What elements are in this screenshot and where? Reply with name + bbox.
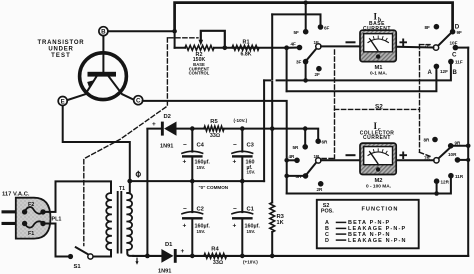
wire top rail (base net B to 5F and 9F)	[175, 3, 453, 32]
M2 plus sign	[400, 152, 406, 158]
svg-text:S2: S2	[375, 104, 383, 111]
svg-text:0-1 MA.: 0-1 MA.	[370, 70, 387, 76]
svg-text:15V.: 15V.	[197, 165, 206, 170]
node R3 bottom	[270, 254, 275, 259]
diode D2 1N91	[146, 129, 148, 256]
svg-text:+: +	[183, 223, 187, 230]
wire 5F feed from top rail	[305, 3, 307, 32]
wire B (to 12F)	[287, 66, 437, 91]
svg-text:33Ω: 33Ω	[210, 133, 220, 139]
transformer T1 core	[118, 192, 122, 253]
meter M1	[360, 30, 396, 61]
contact 2F (spare)	[316, 66, 322, 72]
wire primary bottom to S1	[93, 250, 111, 257]
svg-text:D1: D1	[165, 242, 173, 248]
svg-text:"0" COMMON: "0" COMMON	[199, 185, 229, 190]
switch S2 wiper 1F-3F	[307, 49, 316, 60]
switch S2 wiper 7R-9R	[438, 148, 450, 159]
svg-text:CONTROL: CONTROL	[189, 71, 210, 76]
contact 2R (spare)	[318, 181, 324, 187]
wire secondary bottom to rail	[127, 250, 133, 256]
node 3R stub	[284, 174, 289, 179]
svg-text:B: B	[453, 70, 458, 76]
contact 4F	[297, 45, 303, 51]
svg-text:LEAKAGE N-P-N: LEAKAGE N-P-N	[348, 238, 407, 244]
svg-text:I: I	[374, 12, 378, 22]
svg-text:6.8K: 6.8K	[241, 52, 252, 58]
transistor emitter lead with arrow	[67, 77, 96, 101]
node top-rail junction for 5F	[304, 0, 308, 4]
contact 3F and its drop	[305, 62, 307, 81]
svg-text:12F: 12F	[440, 69, 448, 74]
terminal E	[58, 97, 67, 106]
svg-text:UNDER: UNDER	[48, 47, 73, 53]
node R1 junction	[284, 45, 289, 50]
diode D1 1N91	[161, 249, 173, 263]
wire 1R to M2 minus	[321, 159, 360, 161]
plug PL1 body	[16, 198, 51, 239]
capacitor C4 160uf	[191, 129, 193, 152]
svg-text:POS.: POS.	[321, 209, 334, 215]
M1 plus sign	[400, 40, 406, 46]
svg-text:D: D	[455, 24, 460, 31]
wire A (emitter net: 3F,11F, down to common rail)	[264, 62, 451, 81]
svg-text:2R: 2R	[317, 187, 324, 192]
svg-text:10F: 10F	[450, 40, 458, 45]
wire stub to 4F	[287, 47, 299, 49]
svg-text:F1: F1	[28, 231, 34, 237]
fuse F1	[25, 221, 43, 227]
winding polarity mark	[136, 172, 140, 176]
svg-text:9F: 9F	[457, 30, 463, 35]
switch S2 wiper 1R-3R	[307, 163, 316, 174]
contact 12R with drop to wire A2	[436, 181, 438, 193]
node C4 top	[190, 126, 195, 131]
wire E down and over to transformer/common	[63, 106, 130, 182]
wire 6F branch from collector column	[272, 14, 320, 27]
function table box	[317, 200, 419, 249]
svg-text:11F: 11F	[455, 60, 463, 65]
svg-text:R4: R4	[211, 246, 219, 252]
dashed R2-S1 gang linkage	[84, 38, 198, 246]
svg-text:6F: 6F	[324, 25, 330, 30]
switch S2 wiper 7F-9F	[438, 34, 450, 46]
resistor R2 150K potentiometer	[185, 45, 214, 50]
contact 5R	[302, 144, 308, 150]
svg-text:10R: 10R	[448, 152, 457, 157]
plug prong upper	[2, 210, 17, 213]
svg-text:+: +	[233, 159, 237, 166]
wire plug upper contact out	[43, 211, 56, 213]
switch S1	[68, 254, 73, 259]
svg-text:F2: F2	[28, 202, 34, 208]
svg-text:C4: C4	[197, 142, 205, 148]
contact 11F	[448, 59, 454, 65]
capacitor C3 160uf	[241, 129, 243, 152]
node 4R stub	[284, 158, 289, 163]
wire primary top to plug upper contact	[56, 181, 112, 210]
svg-text:8R: 8R	[424, 138, 431, 143]
contact 1F (wiper pole)	[316, 44, 321, 49]
svg-text:−: −	[183, 142, 187, 149]
wire A2 bottom of lower section to 11R/12R	[287, 176, 451, 194]
plug prong lower	[2, 222, 17, 225]
svg-text:0 - 100 MA.: 0 - 100 MA.	[366, 183, 391, 189]
svg-text:8F: 8F	[425, 25, 431, 30]
svg-text:+: +	[152, 121, 156, 128]
svg-text:15V.: 15V.	[247, 229, 256, 234]
svg-text:1N91: 1N91	[160, 144, 173, 150]
transistor Q under test : lead B	[102, 36, 104, 72]
svg-text:2F: 2F	[315, 72, 321, 77]
contact 9F position D	[450, 29, 456, 35]
node C3/C1 column on common	[240, 179, 245, 184]
svg-text:11R: 11R	[455, 174, 464, 179]
svg-text:−: −	[233, 206, 237, 213]
svg-text:−: −	[183, 206, 187, 213]
svg-text:C: C	[136, 98, 141, 105]
contact 6R	[315, 138, 321, 144]
svg-text:E: E	[61, 98, 65, 105]
svg-text:5R: 5R	[293, 145, 300, 150]
svg-text:R1: R1	[243, 40, 250, 46]
fuse F2	[25, 207, 43, 214]
svg-text:3F: 3F	[296, 60, 302, 65]
svg-text:TEST: TEST	[51, 53, 71, 59]
wire M2 plus to 7R	[396, 159, 434, 161]
contact 9R position D with wire to right vertical	[451, 145, 469, 147]
wire V1 collector feed 6F down to -10V rail	[271, 14, 273, 128]
svg-text:12R: 12R	[441, 180, 450, 185]
contact 7F (wiper pole)	[433, 45, 438, 50]
svg-text:15V.: 15V.	[197, 229, 206, 234]
svg-text:1N91: 1N91	[158, 268, 171, 274]
svg-text:(+10V.): (+10V.)	[243, 259, 258, 264]
wire LV2 collector column down	[286, 129, 288, 194]
wire M1 plus to 7F	[396, 46, 433, 49]
svg-text:TRANSISTOR: TRANSISTOR	[38, 40, 85, 46]
svg-text:B: B	[101, 29, 106, 36]
wire junction down to R2 row	[174, 31, 176, 48]
wire LV from R1 junction down to wire-B corner	[286, 48, 288, 91]
transistor under test circle	[80, 53, 127, 100]
transformer T1 secondary winding	[127, 193, 132, 250]
contact 11R	[448, 173, 454, 179]
svg-text:15V.: 15V.	[247, 170, 256, 175]
svg-text:PL1: PL1	[52, 216, 62, 222]
M2 minus sign	[347, 154, 355, 156]
svg-text:CURRENT: CURRENT	[363, 26, 391, 32]
contact 6F	[318, 24, 324, 30]
contact 10R with stub to right vertical	[458, 159, 469, 161]
terminal B	[99, 27, 108, 36]
node secondary/D2 junction	[145, 254, 150, 259]
transistor collector lead	[109, 77, 134, 100]
resistor R4 33 ohm	[204, 254, 227, 259]
svg-text:4F: 4F	[291, 42, 297, 47]
node V1/R3 column on rail	[270, 126, 275, 131]
wire bottom rail (+10V)	[133, 255, 468, 257]
svg-text:+: +	[183, 159, 187, 166]
svg-text:D: D	[325, 238, 329, 244]
svg-text:A: A	[428, 70, 433, 76]
wire secondary top	[127, 181, 130, 193]
svg-text:−: −	[233, 142, 237, 149]
svg-text:1R: 1R	[314, 154, 321, 159]
svg-text:+: +	[181, 248, 185, 255]
svg-text:S1: S1	[74, 264, 82, 270]
contact 12F	[434, 64, 440, 70]
svg-text:5F: 5F	[294, 30, 300, 35]
capacitor C1 160uf	[241, 181, 243, 212]
wire S1 to plug lower contact	[56, 225, 69, 257]
svg-text:M2: M2	[374, 178, 382, 184]
svg-text:FUNCTION: FUNCTION	[362, 206, 399, 212]
node wire A / 3F junction	[303, 78, 308, 83]
wire collector C to lower switch section	[143, 101, 287, 129]
M1 minus sign	[347, 41, 355, 43]
contact 1R (wiper pole)	[316, 158, 321, 163]
svg-text:D2: D2	[164, 114, 171, 120]
resistor R5 33 ohm	[192, 128, 204, 130]
contact 8F (spare)	[434, 24, 440, 30]
node C2 bottom	[190, 254, 195, 259]
svg-text:1K: 1K	[277, 220, 284, 226]
svg-text:3R: 3R	[296, 174, 303, 179]
svg-text:T1: T1	[119, 186, 125, 192]
contact 4R	[294, 158, 300, 164]
svg-text:4R: 4R	[289, 154, 296, 159]
svg-text:CURRENT: CURRENT	[363, 135, 391, 141]
svg-text:1F: 1F	[314, 40, 320, 45]
node C3 top	[240, 126, 245, 131]
dashed S2 gang linkage	[322, 45, 431, 159]
svg-text:I: I	[374, 121, 378, 131]
svg-text:M1: M1	[374, 65, 383, 71]
meter M2	[360, 143, 396, 174]
svg-text:C2: C2	[197, 206, 204, 212]
transistor base bar	[88, 72, 117, 77]
resistor R3 1K	[271, 129, 273, 203]
node C4/C2 column on common	[190, 179, 195, 184]
wire plug lower contact out	[43, 223, 56, 225]
wire 1F to M1 minus	[321, 45, 360, 47]
node B junction on top-rail drop	[172, 29, 177, 34]
resistor R1 6.8K	[232, 45, 259, 50]
svg-text:C3: C3	[247, 142, 255, 148]
wire "0" common rail	[130, 180, 264, 182]
terminal C	[134, 96, 143, 105]
node secondary top / E	[127, 179, 132, 184]
svg-text:33Ω: 33Ω	[213, 260, 223, 266]
transformer T1 primary winding	[106, 193, 111, 250]
svg-text:C: C	[452, 52, 457, 59]
winding sense arrow	[136, 258, 138, 262]
svg-text:C1: C1	[247, 206, 255, 212]
svg-text:(-10V.): (-10V.)	[234, 118, 248, 123]
R2 wiper arm loop	[201, 31, 225, 48]
node C1 bottom	[240, 254, 245, 259]
capacitor C2 160uf	[191, 181, 193, 212]
contact 8R (spare)	[432, 137, 438, 143]
contact 5F	[303, 29, 309, 35]
contact 3R	[303, 173, 309, 179]
svg-text:9R: 9R	[455, 140, 462, 145]
svg-text:6R: 6R	[322, 140, 329, 145]
wire right vertical (+10V feed to 10F/9R/10R)	[467, 48, 469, 256]
wire -10V rail continue to collector column and 5R/6R	[242, 129, 318, 142]
contact 10F position C with stub to right vertical	[455, 47, 468, 49]
svg-text:117 V.A.C.: 117 V.A.C.	[2, 192, 30, 198]
wire B terminal to junction	[108, 30, 175, 32]
svg-text:R5: R5	[210, 119, 218, 125]
svg-text:+: +	[233, 223, 237, 230]
contact 7R (wiper pole)	[434, 158, 439, 163]
node 5R drop	[303, 126, 308, 131]
